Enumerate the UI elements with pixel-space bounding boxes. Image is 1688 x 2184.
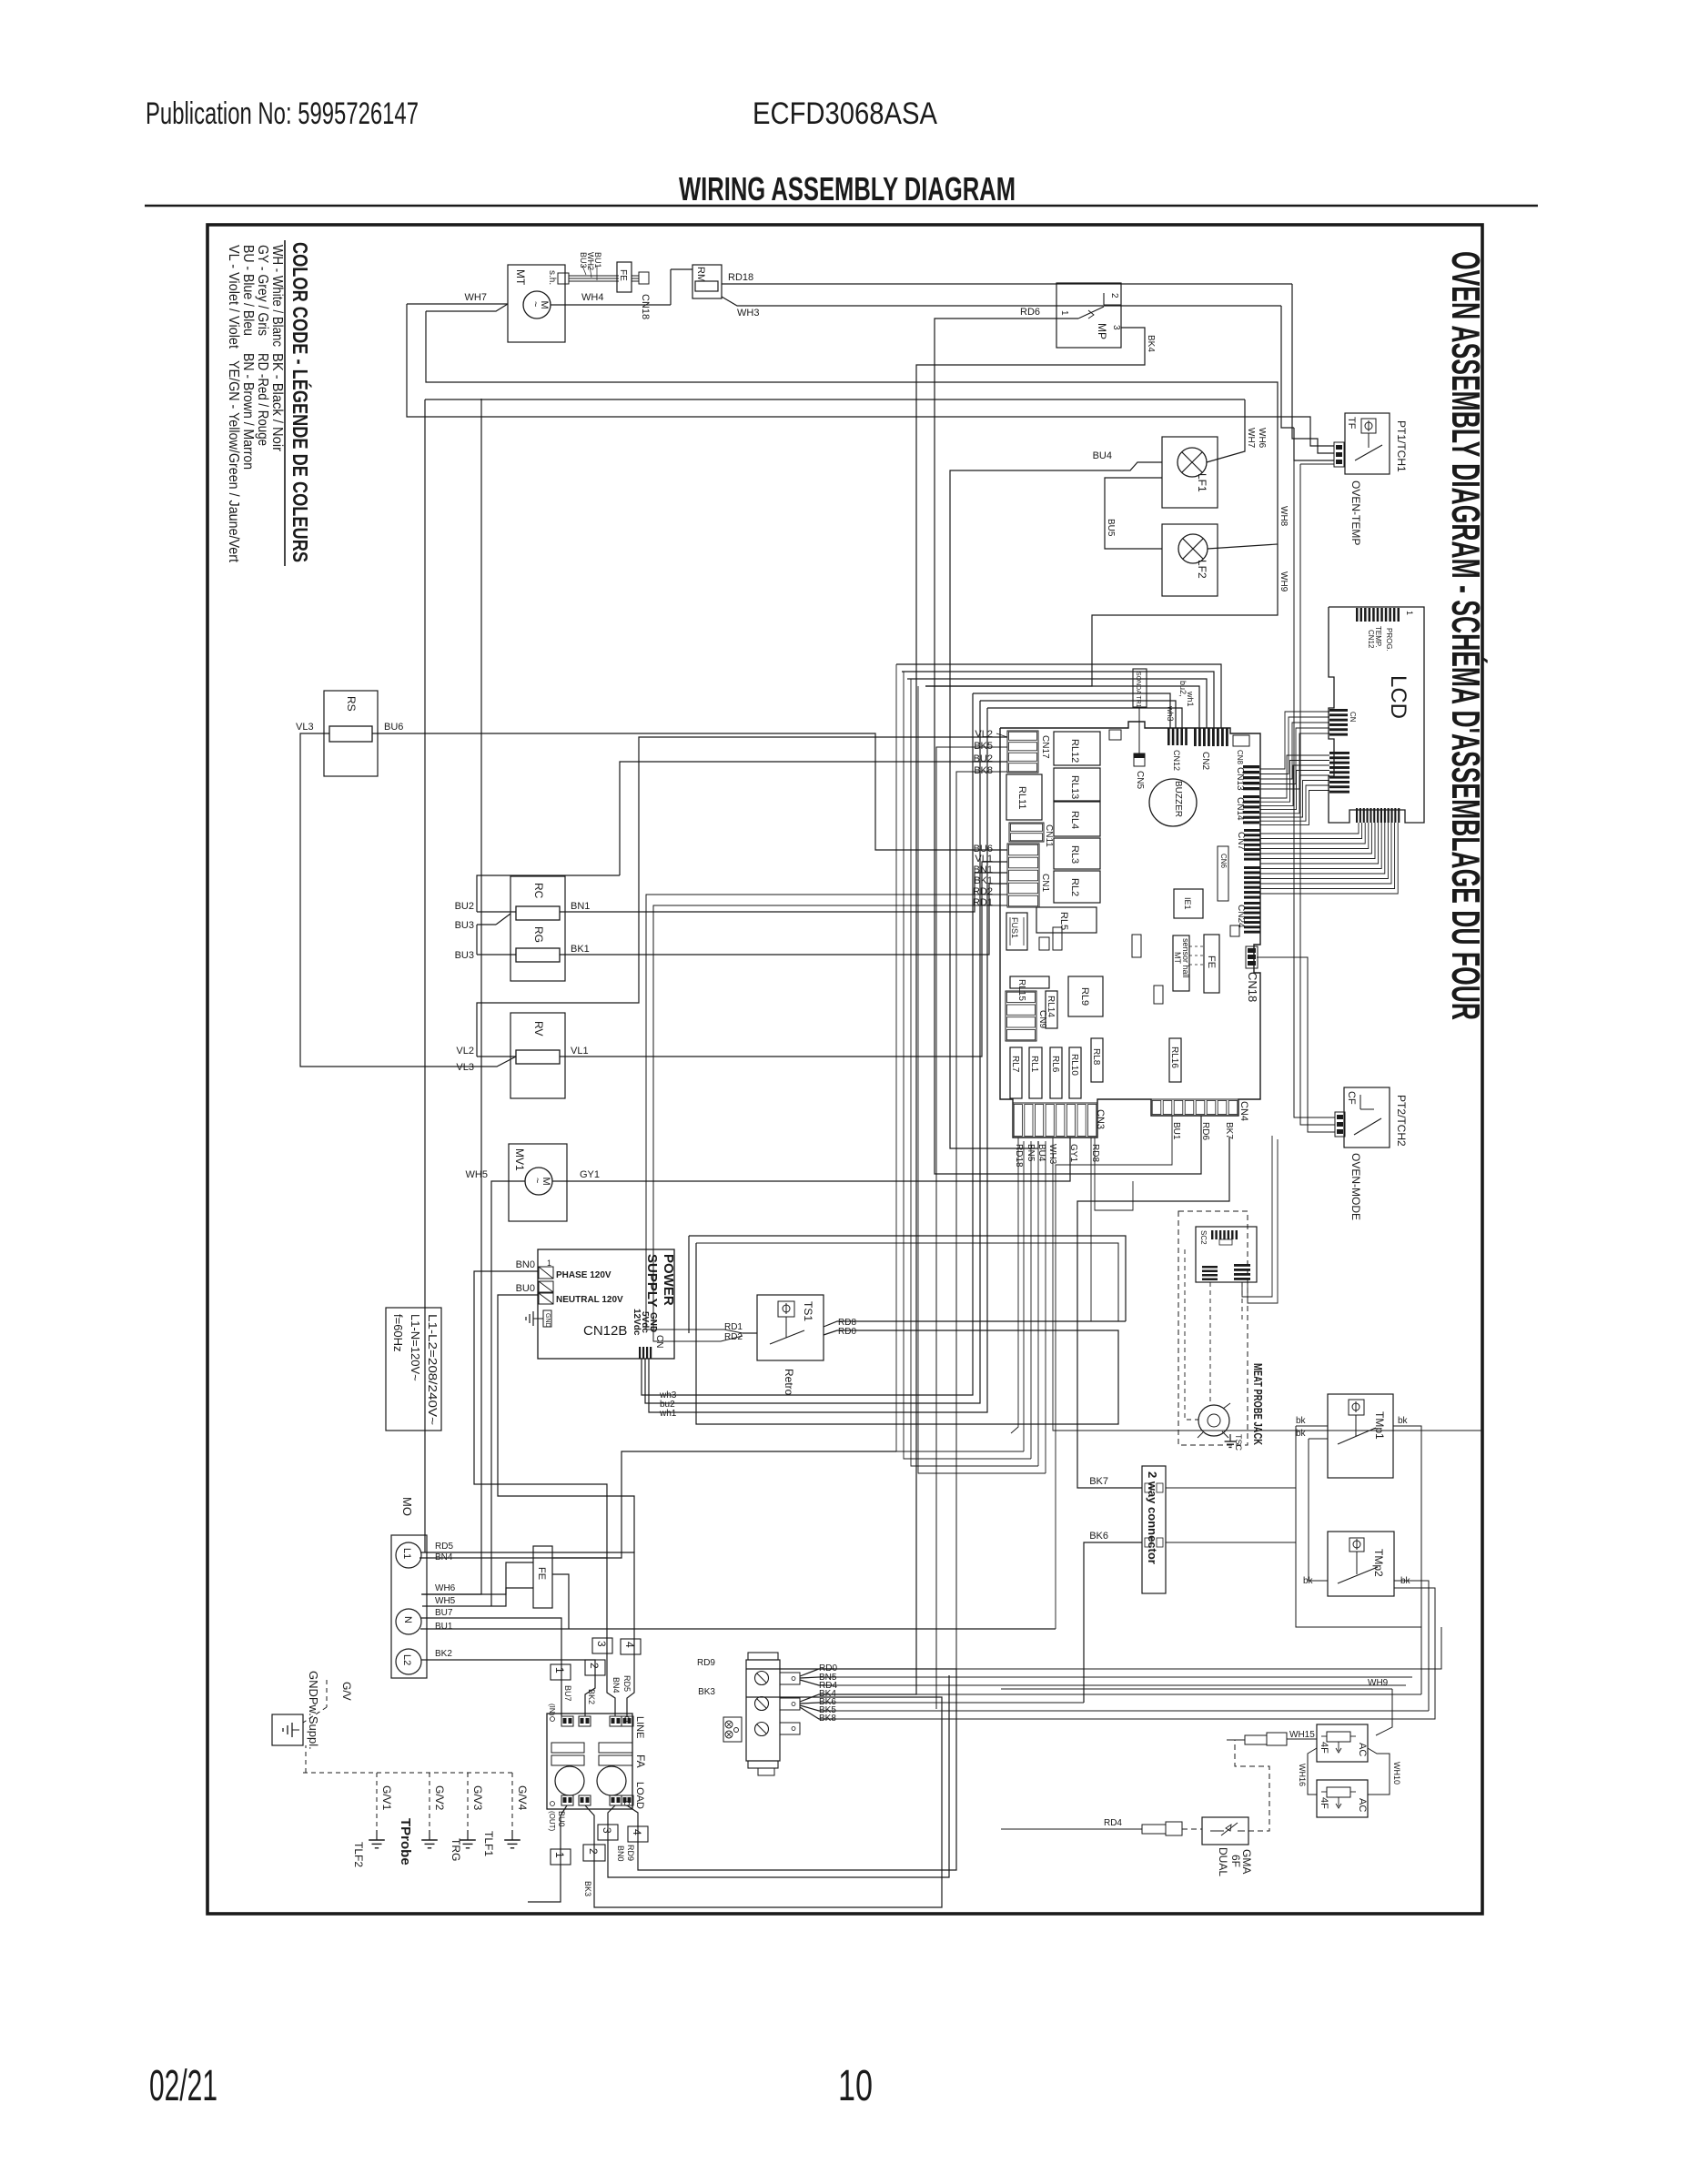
- svg-text:CN18: CN18: [640, 294, 651, 319]
- svg-text:IE1: IE1: [1183, 897, 1192, 910]
- relay RM box: [692, 265, 722, 298]
- relay RL6: [1050, 1047, 1062, 1098]
- svg-text:OVEN ASSEMBLY DIAGRAM - SCHÉ: OVEN ASSEMBLY DIAGRAM - SCHÉMA D'ASSEMBL…: [1443, 251, 1489, 1020]
- svg-text:WH15: WH15: [1289, 1730, 1315, 1740]
- svg-text:BN0: BN0: [516, 1259, 535, 1270]
- small part TR: [1039, 937, 1049, 950]
- svg-text:wh1: wh1: [659, 1409, 677, 1419]
- svg-text:CN13: CN13: [1235, 767, 1245, 791]
- inline connector 2: [585, 1660, 605, 1675]
- wires BU1 WH2 BU3 from s.h. to FE: [569, 275, 619, 277]
- svg-text:BK5: BK5: [974, 741, 993, 752]
- wire GY1 from MV1: [552, 1137, 1070, 1181]
- svg-text:RL12: RL12: [1069, 739, 1080, 763]
- svg-text:CN14: CN14: [1235, 797, 1245, 821]
- FA corner screws: [551, 1717, 555, 1722]
- svg-text:TLF1: TLF1: [482, 1831, 495, 1856]
- LCD bottom connector: [1356, 808, 1358, 823]
- svg-text:RD1: RD1: [973, 897, 993, 908]
- svg-text:SUPPLY: SUPPLY: [644, 1254, 660, 1308]
- svg-text:VL1: VL1: [571, 1046, 589, 1057]
- switch MP box: [1056, 283, 1121, 348]
- svg-text:CN12: CN12: [1172, 750, 1181, 771]
- svg-text:RL15: RL15: [1016, 979, 1026, 1001]
- svg-text:RL10: RL10: [1069, 1054, 1079, 1076]
- wire WH6 long loop: [425, 399, 1245, 400]
- connector CN18 inline: [632, 275, 639, 277]
- resistor RG element: [516, 948, 560, 962]
- svg-text:FE: FE: [536, 1567, 547, 1580]
- relay RL9: [1068, 976, 1103, 1016]
- svg-text:PHASE 120V: PHASE 120V: [556, 1270, 612, 1280]
- svg-text:BK3: BK3: [583, 1881, 592, 1896]
- lamp LF1 box: [1162, 437, 1218, 508]
- svg-text:~: ~: [530, 301, 541, 307]
- svg-text:LCD: LCD: [1386, 675, 1410, 719]
- svg-text:BU5: BU5: [1106, 519, 1116, 537]
- wire BK1 from RG: [560, 884, 1007, 955]
- wire BK6 to 2way: [1084, 1542, 1142, 1703]
- svg-text:LINE: LINE: [634, 1716, 645, 1738]
- wire BN0 to PS: [474, 1271, 607, 1558]
- svg-text:BU3: BU3: [455, 920, 474, 931]
- small part TB2: [1154, 986, 1163, 1004]
- connector CN7 on board: [1244, 829, 1260, 832]
- relay RL1: [1029, 1047, 1042, 1098]
- svg-text:CN8: CN8: [1236, 750, 1244, 765]
- svg-text:OVEN-MODE: OVEN-MODE: [1349, 1153, 1362, 1220]
- svg-text:PT2/TCH2: PT2/TCH2: [1395, 1095, 1408, 1147]
- svg-text:WH5: WH5: [435, 1596, 456, 1606]
- svg-text:WH6: WH6: [1257, 428, 1267, 449]
- svg-text:BK1: BK1: [571, 944, 590, 955]
- wire WH7 from MT: [407, 303, 508, 305]
- wire BK4 from MP: [834, 328, 1145, 1694]
- sensor hall MT part: [1173, 935, 1189, 991]
- wire WH10 AC1 to AC2 right: [1368, 1748, 1390, 1795]
- svg-text:RL1: RL1: [1029, 1056, 1039, 1073]
- wire RD1 to TS1: [653, 905, 1007, 1341]
- wires wh3 bu2 wh1 from PS CN: [642, 693, 973, 1395]
- fuse FUS1: [1006, 913, 1027, 950]
- wire BN1 from RC: [560, 873, 1007, 912]
- svg-text:VL2: VL2: [456, 1046, 474, 1057]
- resistor RV box: [510, 1013, 565, 1098]
- inline connector WH15: [1245, 1735, 1267, 1744]
- svg-text:RD6: RD6: [1200, 1122, 1210, 1140]
- svg-text:RD5: RD5: [435, 1542, 453, 1552]
- svg-text:RD18: RD18: [728, 272, 753, 283]
- svg-text:TS1: TS1: [802, 1301, 814, 1321]
- svg-text:RD18: RD18: [1014, 1144, 1024, 1168]
- PT1 switch: [1368, 433, 1370, 448]
- wires bu2 wh1 wh3 to CN12: [973, 693, 1170, 728]
- connector CN1: [1007, 844, 1039, 907]
- wire WH9 horizontal: [1001, 1688, 1392, 1690]
- svg-text:PROG.: PROG.: [1385, 628, 1393, 652]
- svg-text:COLOR CODE - LÉGENDE DE COLEUR: COLOR CODE - LÉGENDE DE COLEURS: [288, 242, 313, 562]
- svg-text:FE: FE: [1206, 955, 1217, 968]
- main control board outline: [1000, 722, 1260, 1137]
- meat probe connector CN43: [1202, 1266, 1218, 1269]
- wire BU1 from CN4: [1056, 1116, 1172, 1629]
- svg-text:CN12B: CN12B: [583, 1323, 627, 1339]
- svg-text:MT: MT: [514, 269, 527, 286]
- wire WH15 to AC1: [1287, 1738, 1317, 1740]
- FA fuse bodies: [551, 1743, 584, 1753]
- svg-text:MT: MT: [1173, 952, 1182, 964]
- svg-text:BN4: BN4: [435, 1552, 453, 1562]
- ground TLF1: [511, 1830, 513, 1840]
- svg-text:2: 2: [1109, 293, 1119, 298]
- svg-text:BN1: BN1: [974, 864, 993, 875]
- igniter AC2 box: [1317, 1780, 1368, 1817]
- svg-text:WH9: WH9: [1279, 571, 1289, 592]
- thermostat TMp1 box: [1328, 1394, 1393, 1478]
- svg-text:RD4: RD4: [1104, 1818, 1122, 1828]
- svg-text:G/V2: G/V2: [433, 1785, 446, 1811]
- probe TSC ground: [1222, 1431, 1228, 1438]
- TMp2 switch: [1356, 1552, 1358, 1574]
- terminal bottom tab: [758, 1768, 774, 1775]
- svg-text:1: 1: [547, 1259, 551, 1268]
- PS neutral coil: [539, 1293, 553, 1304]
- svg-text:CN24: CN24: [1236, 905, 1246, 928]
- LCD left connector comb2: [1329, 752, 1349, 754]
- svg-text:TMp1: TMp1: [1373, 1411, 1386, 1440]
- IC square: [1174, 889, 1203, 918]
- wire bundle left of board: [896, 664, 1024, 1451]
- FA line terminals: [561, 1716, 573, 1726]
- svg-text:CN17: CN17: [1040, 735, 1050, 759]
- connector CN6 on board: [1244, 866, 1260, 869]
- svg-text:BN1: BN1: [571, 901, 590, 912]
- relay RL14: [1046, 991, 1057, 1028]
- svg-text:~: ~: [531, 1178, 542, 1183]
- svg-text:L1-L2=208/240V~: L1-L2=208/240V~: [426, 1314, 440, 1425]
- svg-text:WH7: WH7: [1246, 428, 1256, 449]
- wire VL3 from RS: [300, 733, 516, 1067]
- svg-text:CN12: CN12: [1367, 630, 1375, 649]
- relay RL11: [1006, 774, 1042, 820]
- inline connector 4 out: [628, 1826, 648, 1842]
- filter FE box top: [617, 262, 632, 292]
- svg-text:BU6: BU6: [384, 722, 403, 733]
- svg-text:BU - Blue / Bleu: BU - Blue / Bleu: [240, 245, 256, 336]
- wire VL2 to RV: [477, 1056, 516, 1057]
- svg-text:BK - Black / Noir: BK - Black / Noir: [269, 353, 285, 452]
- connector CN14 on board: [1243, 795, 1259, 798]
- meat probe board: [1196, 1227, 1257, 1282]
- svg-text:RL3: RL3: [1069, 845, 1080, 864]
- svg-text:BUZZER: BUZZER: [1173, 781, 1183, 817]
- resistor RV element: [516, 1050, 560, 1064]
- svg-text:10: 10: [838, 2062, 873, 2110]
- TS1 switch contact: [785, 1317, 787, 1338]
- svg-text:RG: RG: [532, 926, 545, 943]
- dashed leader to ground box: [326, 1680, 328, 1707]
- svg-text:3: 3: [1111, 325, 1121, 330]
- svg-text:wh3: wh3: [1166, 705, 1175, 722]
- TMp1 switch: [1355, 1415, 1357, 1436]
- wire BU6 from RS: [372, 733, 1007, 850]
- wire BU0 to PS: [498, 1295, 634, 1552]
- svg-text:WH16: WH16: [1298, 1764, 1307, 1786]
- terminal spade lugs: [780, 1673, 800, 1684]
- PS middle coil: [539, 1281, 553, 1292]
- svg-text:BU7: BU7: [563, 1685, 572, 1702]
- lamp LF2 symbol: [1178, 534, 1208, 563]
- svg-text:2 way connector: 2 way connector: [1146, 1471, 1159, 1564]
- small connector CN20: [1230, 925, 1239, 936]
- svg-text:BU7: BU7: [435, 1608, 453, 1618]
- connector CN13 on board: [1243, 765, 1259, 768]
- wire RD2 to TS1: [646, 895, 1007, 1333]
- wire bundle CN13 to LCD left: [1259, 712, 1329, 769]
- svg-text:BN5: BN5: [1026, 1144, 1036, 1162]
- relay RL5: [1036, 907, 1097, 933]
- svg-text:TMp2: TMp2: [1372, 1549, 1385, 1577]
- svg-text:VL3: VL3: [456, 1062, 474, 1073]
- svg-text:BK3: BK3: [698, 1687, 715, 1697]
- terminal N: [396, 1609, 421, 1634]
- svg-text:N: N: [402, 1616, 413, 1623]
- svg-text:L1-N=120V~: L1-N=120V~: [409, 1314, 422, 1381]
- terminal block body: [748, 1653, 778, 1660]
- svg-text:YE/GN - Yellow/Green / Jaune/V: YE/GN - Yellow/Green / Jaune/Vert: [226, 360, 241, 562]
- svg-text:3: 3: [601, 1827, 613, 1834]
- svg-text:POWER: POWER: [661, 1254, 676, 1306]
- sonda TR1 part: [1133, 669, 1147, 707]
- svg-text:BN0: BN0: [616, 1845, 625, 1862]
- lamp LF2 box: [1162, 524, 1218, 596]
- connector CN12 on board top: [1167, 728, 1170, 745]
- svg-text:BU2: BU2: [974, 753, 993, 764]
- relay RL15: [1010, 976, 1049, 988]
- TS1 sensor square: [778, 1301, 794, 1317]
- svg-text:BU0: BU0: [516, 1283, 535, 1294]
- switch GMA box: [1202, 1817, 1248, 1845]
- terminal L2: [396, 1649, 421, 1674]
- wire bundle CN6 to LCD: [1260, 823, 1359, 834]
- TMp1 left wires: [1296, 1425, 1328, 1427]
- svg-text:CF: CF: [1346, 1091, 1357, 1105]
- wire BU7 from N: [421, 1618, 561, 1716]
- svg-text:1: 1: [1059, 310, 1069, 316]
- svg-text:RC: RC: [532, 883, 545, 899]
- wire RD8 RD0 from TS1: [824, 1321, 1126, 1327]
- wires CN3 down: [1011, 1137, 1018, 1433]
- inline connector 1 out: [551, 1849, 571, 1865]
- svg-text:RD8: RD8: [1090, 1144, 1100, 1162]
- svg-text:ECFD3068ASA: ECFD3068ASA: [753, 96, 937, 131]
- svg-text:2: 2: [587, 1848, 600, 1855]
- inline connector RD4: [1142, 1825, 1166, 1834]
- svg-text:RL7: RL7: [1010, 1056, 1020, 1073]
- voltage info box: [386, 1308, 441, 1431]
- MP switch contacts: [1078, 307, 1104, 318]
- svg-text:WH8: WH8: [1279, 506, 1289, 527]
- meat probe jack circle: [1198, 1405, 1229, 1436]
- svg-text:RD -Red / Rouge: RD -Red / Rouge: [255, 353, 270, 446]
- buzzer circle: [1149, 779, 1197, 826]
- svg-text:NEUTRAL 120V: NEUTRAL 120V: [556, 1295, 623, 1305]
- wire RD18 from RM: [722, 283, 1292, 285]
- terminal L1: [396, 1542, 421, 1568]
- svg-text:1: 1: [1405, 611, 1414, 615]
- svg-text:CN2: CN2: [1200, 752, 1210, 770]
- relay RL10: [1069, 1047, 1081, 1098]
- svg-text:MEAT PROBE JACK: MEAT PROBE JACK: [1251, 1363, 1265, 1445]
- wires into FE: [422, 1562, 533, 1594]
- svg-text:RD2: RD2: [724, 1332, 743, 1342]
- relay RL7: [1010, 1047, 1022, 1098]
- connector CN24 on board: [1244, 902, 1260, 905]
- LCD board outline: [1329, 607, 1424, 823]
- svg-text:G/V3: G/V3: [471, 1785, 484, 1811]
- wires to PT2 connector: [1294, 460, 1335, 1117]
- AC2 resistor symbol: [1327, 1787, 1350, 1797]
- svg-text:RS: RS: [345, 696, 358, 712]
- wire WH8 line to LF2: [426, 311, 1278, 549]
- svg-text:RD6: RD6: [1020, 307, 1040, 318]
- AC1 resistor symbol: [1327, 1732, 1350, 1742]
- terminal ground bracket: [723, 1717, 742, 1742]
- wire WH9 from LF2 down: [925, 544, 1278, 686]
- wires from lug1 RD0 BN5 RD4: [800, 1669, 834, 1676]
- svg-text:SC2: SC2: [1199, 1230, 1208, 1245]
- loop around TMp boxes: [1296, 1426, 1421, 1627]
- svg-text:G/V4: G/V4: [516, 1785, 529, 1811]
- small part TBL: [1132, 935, 1141, 957]
- svg-text:4F: 4F: [1319, 1797, 1329, 1809]
- svg-text:RD5: RD5: [622, 1675, 632, 1692]
- svg-text:VL2: VL2: [975, 729, 993, 740]
- svg-text:AC: AC: [1357, 1743, 1368, 1756]
- svg-text:DUAL: DUAL: [1217, 1847, 1229, 1876]
- thermostat TMp2 box: [1328, 1532, 1394, 1596]
- svg-text:bk: bk: [1398, 1416, 1409, 1426]
- meat probe connector CN42: [1234, 1264, 1250, 1267]
- svg-text:RD9: RD9: [697, 1658, 715, 1668]
- svg-text:BU4: BU4: [1093, 450, 1112, 461]
- TMp2 sensor: [1349, 1538, 1364, 1552]
- svg-text:RL4: RL4: [1069, 811, 1080, 829]
- connector CN3 on board bottom: [1013, 1103, 1097, 1137]
- 2 way connector box: [1142, 1466, 1166, 1593]
- svg-text:CN7: CN7: [1236, 832, 1246, 850]
- svg-text:WH5: WH5: [466, 1169, 488, 1180]
- wire BK7 to 2way: [1077, 1137, 1229, 1488]
- svg-text:RD1: RD1: [724, 1322, 743, 1332]
- svg-text:4: 4: [623, 1642, 636, 1648]
- svg-text:BK7: BK7: [1089, 1476, 1108, 1487]
- dashed ground bus: [303, 1772, 512, 1774]
- svg-text:BU0: BU0: [557, 1811, 566, 1827]
- dashed drop G/V1: [376, 1773, 378, 1836]
- svg-text:GND: GND: [544, 1313, 551, 1328]
- svg-text:CN5: CN5: [1135, 771, 1145, 789]
- svg-text:WH10: WH10: [1392, 1762, 1401, 1785]
- svg-text:RV: RV: [532, 1021, 545, 1036]
- inline connector 1: [551, 1664, 571, 1680]
- wire bundle CN14 to LCD left2: [1259, 755, 1329, 798]
- connector CN2 on board top: [1194, 728, 1197, 746]
- TMp1 sensor: [1349, 1400, 1364, 1415]
- relay RL4: [1054, 802, 1100, 836]
- wire WH16 AC1 to AC2: [1308, 1748, 1317, 1795]
- wire BK5 from CN17: [936, 747, 1007, 1709]
- fuse board FA outline: [547, 1714, 632, 1809]
- inline connector 2 out: [583, 1845, 605, 1861]
- svg-text:WH - White / Blanc: WH - White / Blanc: [269, 245, 285, 347]
- MO terminal box: [391, 1535, 427, 1678]
- svg-text:RL16: RL16: [1169, 1046, 1179, 1068]
- svg-text:f=60Hz: f=60Hz: [391, 1314, 405, 1352]
- svg-text:Retro: Retro: [783, 1369, 795, 1396]
- svg-text:RD9: RD9: [626, 1845, 635, 1861]
- svg-text:CN: CN: [1349, 712, 1357, 723]
- wire VL1 from RV: [560, 862, 1007, 1057]
- svg-text:CN18: CN18: [1246, 972, 1259, 1002]
- switch TS1 box: [757, 1295, 824, 1360]
- svg-text:BK8: BK8: [974, 765, 993, 776]
- svg-text:BN4: BN4: [612, 1677, 621, 1694]
- resistor RC element: [516, 906, 560, 920]
- svg-text:CN11: CN11: [1044, 824, 1054, 847]
- wire BK2 from L2: [421, 1660, 595, 1716]
- svg-text:MO: MO: [400, 1497, 414, 1516]
- wire BU3 to RG: [477, 954, 516, 955]
- relay RL13: [1054, 768, 1100, 801]
- wire WH3 from RM: [722, 297, 1281, 306]
- svg-text:RL6: RL6: [1050, 1056, 1060, 1073]
- svg-text:02/21: 02/21: [149, 2062, 217, 2110]
- svg-text:SONDA TR1: SONDA TR1: [1135, 672, 1141, 708]
- svg-text:AC: AC: [1357, 1798, 1368, 1812]
- ground TProbe: [429, 1830, 430, 1840]
- PS phase coil: [539, 1267, 553, 1279]
- relay RL2: [1054, 871, 1100, 903]
- svg-text:WH4: WH4: [581, 292, 603, 303]
- svg-text:GY - Grey / Gris: GY - Grey / Gris: [255, 245, 270, 336]
- terminal screws: [755, 1672, 769, 1685]
- FA load terminals: [561, 1795, 573, 1805]
- connector CN11: [1009, 823, 1044, 842]
- svg-text:WH9: WH9: [1368, 1678, 1389, 1688]
- relay RL8: [1091, 1038, 1103, 1082]
- svg-text:(IN): (IN): [548, 1704, 556, 1716]
- dashed wire to GMA: [1182, 1828, 1202, 1830]
- wire WH7 long loop: [407, 304, 1334, 446]
- svg-text:VL - Violet / Violet: VL - Violet / Violet: [226, 245, 241, 349]
- connector CN18 on board: [1246, 946, 1258, 968]
- wire WH6 from N: [421, 399, 481, 1594]
- fan motor MV1 box: [509, 1144, 567, 1221]
- svg-text:L2: L2: [401, 1654, 412, 1665]
- svg-text:PT1/TCH1: PT1/TCH1: [1395, 420, 1408, 472]
- svg-text:BK1: BK1: [974, 875, 993, 886]
- dashed drop G/V3: [467, 1773, 469, 1836]
- svg-text:BK2: BK2: [435, 1649, 452, 1659]
- resistor in RM: [695, 281, 718, 291]
- thermostat PT1/TCH1 box: [1345, 413, 1390, 474]
- dashed drop G/V2: [429, 1773, 430, 1836]
- wire BU2 to RC: [477, 911, 516, 913]
- svg-text:1: 1: [553, 1667, 566, 1673]
- connector CN8 corner: [1233, 735, 1249, 746]
- connector CN9: [1006, 991, 1036, 1041]
